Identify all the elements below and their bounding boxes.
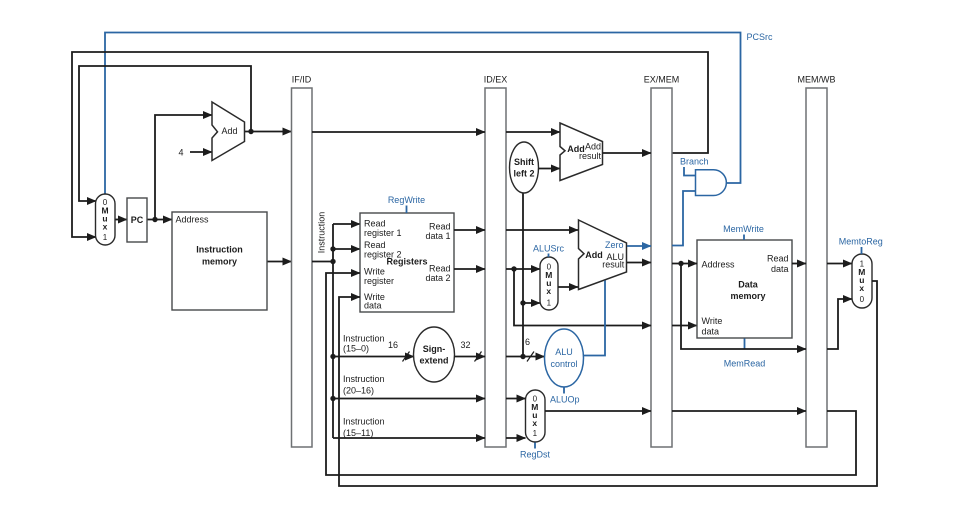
svg-text:Instruction: Instruction	[343, 417, 385, 427]
svg-text:MEM/WB: MEM/WB	[798, 75, 836, 85]
svg-text:x: x	[859, 283, 864, 293]
svg-text:1: 1	[103, 233, 108, 242]
node junction sign-extend branch	[520, 354, 525, 359]
svg-text:left 2: left 2	[513, 169, 534, 179]
wire Read data 1 ID/EX to ALU	[506, 229, 578, 231]
wire Read data 2 ID/EX to ALUSrc mux input 0	[506, 268, 540, 270]
wire instr 20-16 ID/EX to RegDst mux input 0	[506, 398, 526, 400]
wire RegWrite tick	[406, 206, 408, 214]
svg-text:RegWrite: RegWrite	[388, 195, 425, 205]
alu main ALU	[579, 220, 627, 290]
wire PC+4 ID/EX to branch adder	[506, 131, 560, 133]
svg-text:Address: Address	[176, 215, 210, 225]
wire instruction vertical distribution	[332, 224, 334, 438]
svg-text:Add: Add	[585, 250, 603, 260]
wire Zero to EX/MEM (blue)	[627, 245, 651, 247]
svg-text:MemWrite: MemWrite	[723, 224, 764, 234]
node junction instr rr2	[330, 246, 335, 251]
svg-text:data: data	[364, 301, 382, 311]
wire ALU result down and to MEM/WB	[681, 264, 806, 350]
svg-text:32: 32	[460, 340, 470, 350]
ellipse Shift left 2	[510, 142, 539, 193]
wire Zero from EX/MEM to AND (blue)	[672, 191, 696, 246]
svg-text:MemRead: MemRead	[724, 359, 766, 369]
svg-text:(20–16): (20–16)	[343, 386, 374, 396]
svg-text:x: x	[532, 418, 537, 428]
wire MemWrite tick	[743, 235, 745, 241]
wire PCSrc (blue, from AND gate output around top to PC mux select)	[105, 33, 741, 195]
svg-text:x: x	[546, 286, 551, 296]
svg-text:Sign-: Sign-	[423, 344, 446, 354]
adder Add (PC+4)	[212, 102, 245, 161]
wire instruction memory output to IF/ID	[267, 261, 292, 263]
block Registers	[360, 213, 454, 312]
svg-text:x: x	[103, 222, 108, 232]
slash 16	[403, 352, 410, 362]
wire store data EX/MEM to data memory Write data	[672, 325, 697, 327]
svg-text:Shift: Shift	[514, 157, 534, 167]
wire sign-extend up to shift left 2 and ALUSrc mux input 1	[522, 193, 524, 357]
node junction ALU result	[678, 261, 683, 266]
ellipse ALU control (blue)	[545, 329, 584, 387]
wire shift left 2 to branch adder	[539, 168, 561, 170]
svg-text:Read: Read	[364, 219, 386, 229]
wire ALUOp tick	[563, 388, 565, 394]
svg-text:(15–11): (15–11)	[343, 428, 373, 438]
register ID/EX	[485, 88, 506, 447]
wire write register wrap back to Registers	[326, 273, 856, 475]
svg-text:memory: memory	[202, 257, 237, 267]
wire instruction 15-0 to sign extend	[333, 356, 414, 358]
svg-text:data 2: data 2	[425, 273, 450, 283]
wire ALU result to EX/MEM	[627, 262, 651, 264]
svg-text:control: control	[550, 359, 577, 369]
wire PC+4 wrap (Add output to PC mux input 0)	[79, 66, 251, 201]
svg-text:1: 1	[533, 429, 538, 438]
wire write register EX/MEM to MEM/WB	[672, 410, 806, 412]
node junction Add output	[248, 129, 253, 134]
svg-text:ALU: ALU	[555, 347, 573, 357]
wire Branch tick into AND	[684, 167, 696, 176]
svg-text:register: register	[364, 276, 394, 286]
svg-text:EX/MEM: EX/MEM	[644, 75, 680, 85]
svg-text:Zero: Zero	[605, 240, 624, 250]
register EX/MEM	[651, 88, 672, 447]
register MEM/WB	[806, 88, 827, 447]
svg-text:Registers: Registers	[386, 257, 427, 267]
svg-text:Read: Read	[767, 254, 789, 264]
mux PC source (0/1)	[96, 194, 116, 245]
svg-text:Write: Write	[702, 316, 723, 326]
wire Add output to IF/ID	[245, 131, 292, 133]
node junction instr main	[330, 259, 335, 264]
wire RegDst mux output to EX/MEM	[545, 410, 651, 412]
svg-text:1: 1	[547, 299, 552, 308]
svg-text:PC: PC	[131, 215, 144, 225]
wire PC mux output to PC	[115, 219, 127, 221]
mux ALUSrc	[540, 257, 558, 310]
wire instr 15-11 ID/EX to RegDst mux input 1	[506, 437, 526, 439]
wire ALUSrc mux output to ALU	[558, 286, 578, 288]
mux RegDst	[526, 390, 546, 442]
wire ALU result MEM/WB to MemtoReg mux input 0	[827, 299, 852, 349]
wire to ALUSrc mux input 1	[523, 302, 540, 304]
svg-text:extend: extend	[419, 356, 448, 366]
svg-text:RegDst: RegDst	[520, 450, 551, 460]
wire MemRead tick	[744, 339, 746, 350]
svg-text:Add: Add	[221, 126, 237, 136]
svg-text:Data: Data	[738, 280, 759, 290]
wire PC value up to Add input	[155, 115, 212, 220]
svg-text:Instruction: Instruction	[196, 245, 243, 255]
mux MemtoReg	[852, 254, 872, 308]
wire constant 4 into Add	[190, 151, 212, 153]
wire instruction 20-16 to ID/EX	[333, 398, 485, 400]
block instruction memory	[172, 212, 267, 310]
svg-text:Add: Add	[585, 142, 601, 152]
svg-text:(15–0): (15–0)	[343, 344, 369, 354]
wire to Read register 2	[333, 248, 360, 250]
node junction read data 2	[511, 266, 516, 271]
wire data memory Read data to MEM/WB	[792, 263, 806, 265]
svg-text:Read: Read	[429, 264, 451, 274]
wire sign-extend output to ID/EX	[455, 356, 486, 358]
register IF/ID	[292, 88, 313, 447]
ellipse Sign-extend	[414, 327, 455, 382]
node junction instr 15-0	[330, 354, 335, 359]
svg-text:Instruction: Instruction	[343, 374, 385, 384]
register PC	[127, 198, 147, 242]
node junction PC out	[152, 217, 157, 222]
svg-text:6: 6	[525, 337, 530, 347]
svg-text:data 1: data 1	[425, 231, 450, 241]
svg-text:Instruction: Instruction	[317, 212, 327, 254]
svg-text:ALUOp: ALUOp	[550, 395, 580, 405]
svg-text:Branch: Branch	[680, 157, 709, 167]
wire read data MEM/WB to MemtoReg mux input 1	[827, 263, 852, 265]
wire sign-extended ID/EX to ALU control	[506, 356, 545, 358]
wire branch-target wrap (EX/MEM to PC mux input 1)	[72, 52, 708, 237]
svg-text:Read: Read	[364, 240, 386, 250]
svg-text:Read: Read	[429, 222, 451, 232]
svg-text:4: 4	[178, 148, 183, 158]
wire write-back data wrap to Registers Write data	[339, 281, 877, 486]
svg-text:PCSrc: PCSrc	[747, 32, 774, 42]
svg-text:16: 16	[388, 340, 398, 350]
gate AND branch (blue)	[696, 170, 727, 196]
slash 32	[475, 352, 482, 362]
wire PC to instruction memory Address	[147, 219, 172, 221]
wire Read data 1 to ID/EX	[454, 229, 485, 231]
svg-text:data: data	[702, 327, 720, 337]
wire read data 2 down to EX/MEM (store data)	[514, 269, 651, 326]
svg-text:memory: memory	[730, 291, 765, 301]
wire to Read register 1	[333, 223, 360, 225]
svg-text:ALUSrc: ALUSrc	[533, 244, 565, 254]
svg-text:result: result	[579, 151, 602, 161]
wire ALUSrc tick	[548, 254, 550, 258]
wire PC+4 IF/ID to ID/EX	[312, 131, 485, 133]
svg-text:register 1: register 1	[364, 228, 402, 238]
adder branch Add	[560, 123, 603, 181]
wire instruction bus out of IF/ID	[312, 261, 333, 263]
wire MemtoReg tick	[861, 247, 863, 254]
svg-text:Address: Address	[702, 260, 736, 270]
wire ALU control to ALU (blue)	[584, 281, 606, 356]
svg-text:Instruction: Instruction	[343, 334, 385, 344]
node junction instr 20-16	[330, 396, 335, 401]
svg-text:IF/ID: IF/ID	[292, 75, 312, 85]
wire RegDst tick	[534, 443, 536, 449]
svg-text:MemtoReg: MemtoReg	[839, 237, 883, 247]
svg-text:data: data	[771, 264, 789, 274]
slash 6	[527, 352, 534, 362]
svg-text:ID/EX: ID/EX	[484, 75, 508, 85]
wire Read data 2 to ID/EX	[454, 268, 485, 270]
wire ALU result EX/MEM to data memory Address	[672, 263, 697, 265]
svg-text:0: 0	[860, 295, 865, 304]
wire instruction 15-11 to ID/EX	[333, 437, 485, 439]
svg-text:Write: Write	[364, 267, 385, 277]
wire branch adder to EX/MEM	[603, 152, 652, 154]
svg-text:result: result	[602, 260, 625, 270]
node junction mux1 tap	[520, 300, 525, 305]
block Data memory	[697, 240, 792, 338]
